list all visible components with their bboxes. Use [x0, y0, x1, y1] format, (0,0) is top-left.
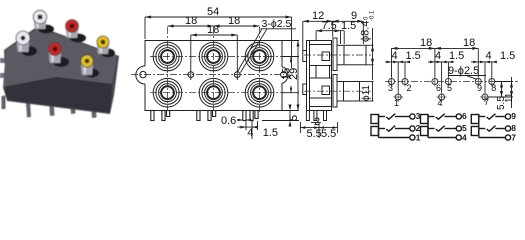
svg-text:3: 3 [416, 111, 421, 121]
svg-text:7: 7 [511, 133, 516, 143]
svg-text:18: 18 [463, 37, 475, 49]
svg-text:4: 4 [486, 50, 492, 62]
svg-text:1.5: 1.5 [406, 50, 421, 62]
svg-text:7.5: 7.5 [322, 20, 337, 32]
svg-text:54: 54 [207, 6, 219, 18]
svg-text:4: 4 [247, 127, 253, 139]
svg-text:18: 18 [185, 15, 197, 27]
svg-text:29: 29 [288, 68, 300, 80]
svg-text:ϕ8.4: ϕ8.4 [360, 21, 372, 42]
svg-text:3: 3 [388, 83, 393, 93]
svg-text:4: 4 [392, 50, 398, 62]
svg-text:18: 18 [228, 15, 240, 27]
svg-text:0.6: 0.6 [221, 115, 236, 127]
svg-text:1.5: 1.5 [263, 127, 278, 139]
svg-text:2: 2 [314, 116, 320, 128]
svg-text:9-ϕ2.5: 9-ϕ2.5 [448, 65, 479, 77]
svg-text:2: 2 [416, 123, 421, 133]
svg-text:1: 1 [416, 133, 421, 143]
svg-text:2: 2 [407, 83, 412, 93]
svg-text:4: 4 [435, 50, 441, 62]
svg-text:1.5: 1.5 [341, 20, 356, 32]
svg-text:8: 8 [511, 123, 516, 133]
svg-text:9: 9 [511, 111, 516, 121]
svg-text:1: 1 [394, 98, 399, 108]
svg-text:1.5: 1.5 [500, 50, 515, 62]
svg-text:7: 7 [484, 97, 489, 107]
svg-text:11: 11 [504, 92, 515, 103]
svg-text:ϕ11: ϕ11 [361, 85, 372, 101]
svg-text:6: 6 [462, 111, 467, 121]
svg-text:4: 4 [438, 98, 443, 108]
svg-text:-0.1: -0.1 [370, 10, 376, 21]
svg-text:18: 18 [420, 37, 432, 49]
svg-text:5.5: 5.5 [321, 128, 336, 140]
svg-text:1.5: 1.5 [449, 50, 464, 62]
svg-text:6: 6 [436, 83, 441, 93]
svg-text:18: 18 [207, 24, 219, 36]
svg-text:5: 5 [447, 83, 452, 93]
svg-text:3-ϕ2.5: 3-ϕ2.5 [262, 18, 292, 30]
svg-text:4: 4 [462, 133, 467, 143]
svg-text:5: 5 [288, 115, 300, 121]
svg-text:5.5: 5.5 [307, 128, 322, 140]
svg-text:9: 9 [477, 83, 482, 93]
svg-text:8: 8 [491, 83, 496, 93]
svg-text:5: 5 [462, 123, 467, 133]
